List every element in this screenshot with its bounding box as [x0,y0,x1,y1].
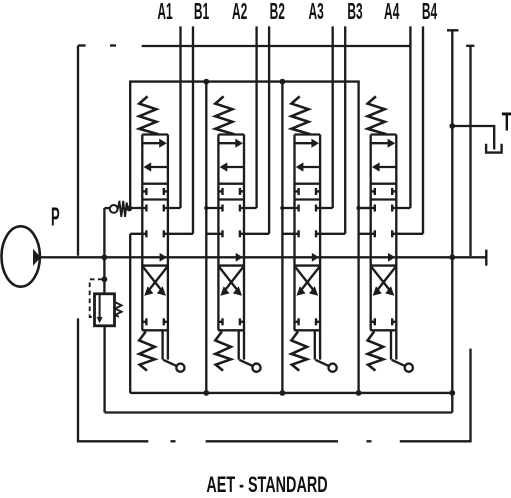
svg-text:A4: A4 [384,0,400,24]
svg-text:A2: A2 [232,0,247,24]
svg-text:B1: B1 [194,0,209,24]
svg-text:T: T [502,106,511,136]
svg-text:AET - STANDARD: AET - STANDARD [206,473,327,498]
svg-text:A3: A3 [308,0,323,24]
svg-text:B3: B3 [347,0,362,24]
svg-text:A1: A1 [157,0,172,24]
svg-text:P: P [51,203,60,232]
svg-text:B4: B4 [422,0,438,24]
svg-text:B2: B2 [270,0,285,24]
